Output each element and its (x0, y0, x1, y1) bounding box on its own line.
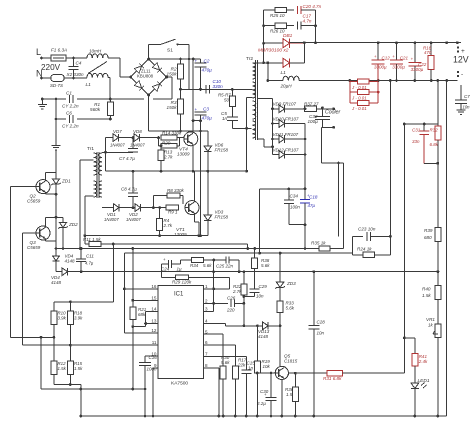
capacitor C1 CY 2.2n (69, 95, 71, 103)
wire - output minus rail (299, 80, 457, 82)
wire - pin16 loop (124, 288, 157, 290)
snubber capacitor C17 4.7n (296, 22, 298, 30)
wire - pin5 to R30 (204, 333, 224, 335)
svg-text:560k: 560k (90, 107, 101, 112)
svg-text:R8 330k: R8 330k (167, 188, 185, 193)
svg-text:1: 1 (205, 284, 208, 289)
wire - Tr2 secondary top to diode (252, 62, 253, 64)
wire - R32 C31 feedback network (404, 123, 437, 125)
svg-text:FR158: FR158 (215, 215, 229, 220)
svg-text:LED1: LED1 (418, 378, 430, 384)
svg-text:6: 6 (205, 340, 208, 345)
wire - second diode riser to +rail (303, 43, 305, 63)
wire - riser from base divider (40, 337, 42, 389)
resistor R20 (158, 138, 160, 146)
capacitor C5 1n (231, 107, 233, 118)
diode VD7 1N4007 (106, 137, 114, 139)
wire - emitter sense to R31 (287, 373, 289, 375)
diode VD1 1N4007 (108, 207, 114, 209)
wire - pin13 pin14 tie (146, 310, 158, 312)
capacitor C3 470u (195, 111, 207, 113)
resistor R10 3.9k (53, 302, 55, 311)
svg-text:11: 11 (152, 340, 157, 345)
zener ZD1 (55, 150, 57, 179)
svg-text:5.6k: 5.6k (261, 263, 270, 268)
svg-text:R24 1k: R24 1k (357, 247, 372, 252)
svg-text:330n: 330n (213, 84, 224, 89)
svg-text:R40: R40 (422, 287, 431, 292)
wire - pin10 to C16 (145, 355, 158, 357)
resistor R29 120k (162, 276, 176, 278)
diode VD3 FR158 (207, 171, 209, 215)
svg-text:SD-7S: SD-7S (50, 83, 63, 88)
svg-text:C24: C24 (161, 267, 170, 272)
svg-text:1n: 1n (248, 366, 254, 371)
capacitor C32 100u (321, 107, 324, 110)
svg-text:100n: 100n (147, 367, 158, 372)
ground (55, 119, 57, 145)
fuse F1 6.3A (51, 55, 66, 61)
wire - Q5 emitter down (281, 380, 283, 417)
diode VD8 1N4007 (119, 137, 135, 139)
svg-text:1n: 1n (222, 116, 228, 121)
wire - rectifier anode bus (272, 99, 274, 155)
capacitor C26 220 (230, 300, 232, 308)
svg-text:5.6k: 5.6k (203, 263, 212, 268)
capacitor C28 10n (308, 324, 319, 326)
resistor R15 1.5k (69, 345, 71, 361)
svg-text:C18: C18 (309, 195, 318, 200)
resistor R5-R7 50 (231, 88, 234, 91)
svg-text:1.5k: 1.5k (58, 366, 67, 371)
svg-text:1µ: 1µ (177, 267, 183, 272)
diode VD2 1N4007 (119, 207, 135, 209)
svg-text:C8 4.7µ: C8 4.7µ (121, 187, 137, 192)
capacitor C34 100n (260, 188, 305, 190)
svg-text:C11: C11 (86, 254, 94, 259)
wire - C28 column (313, 272, 315, 326)
capacitor C2 470u (200, 59, 202, 63)
svg-text:C7 4.7µ: C7 4.7µ (119, 156, 135, 161)
svg-text:10n: 10n (463, 105, 471, 110)
capacitor C10 330n (205, 85, 207, 93)
svg-text:R26 10: R26 10 (270, 29, 285, 34)
svg-text:C20 4.7n: C20 4.7n (303, 4, 322, 9)
resistor R21 68k (132, 249, 134, 308)
svg-text:+: + (195, 107, 198, 112)
rectifier diode MBR30100 second (253, 62, 283, 64)
wire - pin12 stub (124, 332, 157, 334)
diode VD4 4148 (55, 249, 57, 256)
svg-text:470µ: 470µ (202, 68, 213, 73)
svg-text:3300µ: 3300µ (392, 65, 405, 70)
svg-text:MBR30100 x2: MBR30100 x2 (258, 48, 289, 54)
wire - half-bridge midpoint WM1 (106, 170, 247, 172)
wire - bottom ground link (41, 388, 145, 390)
svg-text:ZD3: ZD3 (286, 281, 296, 286)
svg-text:33n: 33n (412, 139, 420, 144)
rectifier diode DB1 MBR30100 (264, 42, 283, 44)
wire - AC input L line (40, 57, 43, 60)
wire - Q3 base to bus (23, 232, 36, 234)
svg-text:2.4k: 2.4k (418, 359, 428, 364)
resistor R39 680 (435, 227, 441, 241)
svg-text:C16: C16 (149, 355, 158, 360)
wire - +12V top rail (290, 42, 462, 44)
wire - Q5 base wire (257, 372, 275, 374)
svg-text:CY 2.2n: CY 2.2n (62, 104, 79, 109)
svg-text:ZD2: ZD2 (68, 222, 78, 227)
zener ZD3 (279, 253, 281, 282)
svg-text:4148: 4148 (65, 259, 76, 264)
capacitor C25 22n (214, 259, 226, 261)
svg-text:C34: C34 (290, 194, 299, 199)
wire - VT1 emitter rail (85, 235, 208, 237)
wire - C24 row corners (161, 264, 163, 277)
capacitor C18 47u (300, 198, 310, 200)
resistor R12 1.5k (53, 337, 55, 361)
svg-text:220: 220 (226, 308, 235, 313)
svg-text:FR158: FR158 (215, 148, 229, 153)
wire - Q2 collector (44, 173, 46, 181)
wire - R12 R15 bottom tie (54, 384, 81, 386)
svg-text:1k: 1k (428, 323, 433, 328)
capacitor C24 1u (167, 260, 169, 268)
wire - C26 drop to VD13 row (243, 303, 245, 325)
diode VD13 4148 (263, 322, 269, 330)
svg-text:C25 22n: C25 22n (216, 264, 234, 269)
IC U1 KA7500 box (158, 286, 204, 379)
wire - pin4 row / VD13 row (204, 323, 226, 325)
wire - choke bottom to N node (108, 77, 110, 79)
svg-text:150k: 150k (167, 105, 178, 110)
svg-text:3: 3 (205, 307, 208, 312)
wire - WA drop to WB (247, 244, 249, 249)
wire - VT4 collector (192, 59, 194, 133)
resistor R2 150k (180, 59, 182, 64)
svg-text:50: 50 (224, 98, 229, 103)
wire - Tr2 secondary tap to rectifiers (258, 98, 273, 100)
svg-text:R34: R34 (190, 263, 199, 268)
wire - snubber right riser (315, 10, 317, 43)
resistor R30 5.6k (220, 366, 226, 379)
svg-text:R31 6.8k: R31 6.8k (323, 376, 342, 381)
wire - pin8 down (204, 367, 219, 369)
wire - DC+ rail y59 (149, 58, 201, 60)
diode VD4b 4148 (56, 271, 62, 273)
wire - pin3 stub (204, 310, 214, 312)
wire - snubber return to primary bottom (232, 127, 251, 129)
svg-text:R11 1.5k: R11 1.5k (83, 237, 101, 242)
wire - bridge negative lead (148, 95, 150, 131)
svg-text:68k: 68k (138, 312, 146, 317)
wire - Tr2 bottom stub (258, 138, 264, 140)
resistor R18 3.9k (69, 302, 71, 311)
resistor R24 1k (352, 254, 363, 256)
svg-text:ZD1: ZD1 (61, 179, 71, 184)
svg-text:C6: C6 (66, 111, 72, 116)
svg-text:KA7500: KA7500 (171, 381, 188, 387)
wire - pin11 long bus (23, 344, 158, 346)
svg-text:R9 1: R9 1 (168, 210, 178, 215)
svg-text:1.5k: 1.5k (422, 293, 431, 298)
wire - bottom rail (81, 415, 447, 417)
capacitor C11 4.7u (80, 270, 83, 273)
svg-text:5.6k: 5.6k (221, 360, 230, 365)
svg-text:4148: 4148 (258, 334, 269, 339)
svg-text:470: 470 (424, 50, 432, 55)
transistor VT1 13009 (185, 201, 199, 215)
resistor R4 2.7k (159, 208, 161, 219)
resistor R34 5.6k (180, 259, 191, 261)
snubber capacitor C20 4.7n (296, 6, 298, 14)
resistor R3 150k (180, 89, 182, 99)
capacitor C12 3300u (377, 43, 379, 61)
capacitor C8 4.7u (132, 171, 134, 193)
svg-text:1.5: 1.5 (286, 392, 293, 397)
wire - feedback wire y271 (81, 271, 439, 273)
svg-text:2.2µ: 2.2µ (256, 401, 266, 406)
wire - x404 feedback column (403, 124, 405, 373)
zener ZD2 (62, 217, 64, 222)
svg-text:Tr1: Tr1 (87, 146, 94, 152)
svg-text:6.8k: 6.8k (430, 142, 439, 147)
resistor R32 6.8k (437, 81, 439, 127)
wire - C31 R32 bottom tie (424, 162, 438, 164)
svg-text:150k: 150k (167, 72, 178, 77)
thermistor SD-7S (51, 75, 64, 82)
wire - N line with Y caps (42, 98, 66, 100)
svg-text:R39: R39 (424, 228, 433, 233)
svg-text:5: 5 (205, 329, 208, 334)
svg-text:C29: C29 (259, 284, 268, 289)
switch S1 (148, 44, 150, 59)
wire - bus x56 down (55, 194, 57, 248)
wire - rectifier cathode bus (304, 124, 306, 200)
wire - snubber left riser (263, 10, 265, 63)
svg-text:220V: 220V (41, 63, 61, 72)
svg-text:C1: C1 (66, 91, 72, 96)
wire - half-bridge midpoint to primary (181, 88, 248, 90)
svg-text:1N4007: 1N4007 (126, 217, 141, 222)
diode VD6 FR158 (207, 131, 209, 146)
capacitor C6 CY 2.2n (69, 115, 71, 123)
capacitor C7 4.7u (132, 138, 134, 149)
wire - VT4 collector tap to C3 (193, 120, 200, 122)
svg-text:CY 2.2n: CY 2.2n (62, 124, 79, 129)
svg-text:L: L (36, 47, 41, 57)
svg-text:VD8: VD8 (133, 129, 142, 134)
wire - AC input N line (40, 77, 43, 80)
svg-text:DB1: DB1 (283, 33, 293, 39)
svg-text:L1: L1 (86, 82, 92, 88)
resistor R1 560k (109, 99, 111, 102)
svg-text:10n: 10n (317, 331, 325, 336)
ground (41, 99, 43, 105)
capacitor C30 2.2u (270, 373, 272, 397)
svg-text:VR1: VR1 (426, 317, 435, 322)
svg-text:100µ: 100µ (308, 119, 319, 124)
svg-text:8: 8 (205, 363, 208, 368)
svg-text:C2: C2 (204, 59, 210, 64)
svg-text:7: 7 (205, 352, 208, 357)
resistor R8 330k (152, 196, 154, 208)
rectifier diode VD10 FR107 (273, 123, 280, 125)
wire - WB bus (56, 248, 344, 250)
svg-text:R29 120k: R29 120k (172, 280, 192, 285)
svg-text:10n: 10n (256, 294, 264, 299)
resistor R36 1.5k (294, 373, 296, 387)
wire - Q3 collector to ZD2 (44, 217, 46, 227)
svg-text:Cooler: Cooler (325, 110, 341, 116)
resistor R37 27 (305, 106, 317, 111)
rectifier diode VD12 FR107 (273, 154, 280, 156)
svg-text:J - 0.01: J - 0.01 (351, 106, 367, 111)
wire - riser from WC to C34 (259, 189, 261, 253)
resistor R19 10k (256, 326, 258, 361)
transistor Q5 C1815 (275, 366, 288, 379)
svg-text:C4: C4 (76, 61, 82, 66)
svg-text:-: - (461, 71, 463, 78)
resistor R38 5.6k (254, 249, 256, 259)
wire - WB riser to C32 net (343, 163, 345, 249)
svg-text:680: 680 (424, 235, 432, 240)
wire - Tr2 primary bottom tap (247, 96, 253, 98)
svg-text:14: 14 (151, 307, 157, 312)
wire - Q2 emitter (44, 192, 46, 194)
svg-text:1N4007: 1N4007 (110, 143, 125, 148)
wire - VT1 emitter (193, 213, 195, 222)
wire - WC to R24 row (351, 253, 353, 255)
svg-text:VD12 FR107: VD12 FR107 (273, 147, 300, 152)
svg-text:4: 4 (205, 319, 208, 324)
wire - Q3 emitter (44, 239, 46, 241)
inductor L1 20uH (268, 80, 283, 82)
wire - divider riser to WA (112, 244, 114, 302)
capacitor C16 100n (144, 356, 146, 362)
resistor R13 2.7k (160, 146, 162, 150)
bridge rectifier ZL11 KBU808 (131, 59, 167, 95)
rectifier diode VD11 FR107 (273, 138, 280, 140)
capacitor C29 10n (254, 269, 256, 290)
svg-text:2.7k: 2.7k (163, 223, 173, 228)
wire - WC bus (124, 252, 352, 254)
wire - C25 drop to fb wire (238, 260, 240, 272)
svg-text:4.7µ: 4.7µ (85, 261, 94, 266)
resistor R40 1.5k (435, 286, 441, 300)
svg-text:2.7k: 2.7k (163, 155, 173, 160)
transistor VT4 13009 (184, 132, 198, 146)
svg-text:13009: 13009 (177, 152, 190, 157)
svg-text:1.5k: 1.5k (74, 366, 83, 371)
svg-text:2.7k: 2.7k (232, 289, 242, 294)
svg-text:X2 330n: X2 330n (66, 72, 85, 77)
svg-text:4148: 4148 (51, 280, 62, 285)
svg-text:C3: C3 (203, 107, 209, 112)
svg-text:VD7: VD7 (113, 129, 122, 134)
svg-text:10mH: 10mH (89, 49, 102, 54)
transistor Q3 C5659 (36, 226, 50, 240)
svg-text:C7: C7 (464, 94, 470, 99)
svg-text:F1 6.3A: F1 6.3A (51, 48, 67, 53)
potentiometer VR1 1k (435, 324, 441, 338)
svg-text:R32: R32 (430, 128, 439, 133)
wire - VT4 emitter to midpoint (192, 144, 194, 171)
capacitor C21 3300u (396, 43, 398, 61)
wire - WA feedback wire (85, 243, 248, 245)
LED LED1 (411, 383, 419, 389)
svg-text:13009: 13009 (174, 232, 187, 237)
wire - VT1 collector to midpoint (193, 171, 195, 202)
resistor R41 2.4k (412, 354, 418, 366)
svg-text:VD10 FR107: VD10 FR107 (273, 116, 300, 121)
resistor R31 6.8k (327, 370, 343, 376)
svg-text:12V: 12V (453, 55, 469, 65)
svg-text:3300µ: 3300µ (411, 67, 424, 72)
capacitor C31 33n (423, 124, 425, 131)
wire - second Y cap line (55, 99, 57, 119)
svg-text:R14 330k: R14 330k (162, 131, 182, 136)
svg-text:5.6k: 5.6k (286, 306, 295, 311)
svg-text:C5659: C5659 (27, 199, 41, 204)
svg-text:C12: C12 (382, 56, 391, 61)
svg-text:C5659: C5659 (27, 245, 41, 250)
svg-text:KBU808: KBU808 (137, 74, 154, 79)
capacitor C22 3300u (414, 43, 416, 63)
wire - C23 riser (338, 163, 340, 236)
svg-text:22k: 22k (237, 363, 246, 368)
snubber resistor R26 10 (264, 25, 275, 27)
svg-text:10k: 10k (263, 364, 271, 369)
resistor R14 330k (161, 135, 177, 140)
rectifier diode VD9 FR107 (273, 108, 280, 110)
svg-text:470µ: 470µ (202, 116, 213, 121)
wire - Q2 base to left bus (10, 186, 36, 188)
wire - Tr2 primary top feed (247, 88, 252, 90)
svg-text:C1815: C1815 (284, 359, 298, 364)
svg-text:1N4007: 1N4007 (104, 217, 119, 222)
wire - pin6 to R17 (204, 344, 236, 346)
svg-text:R35 1k: R35 1k (311, 241, 326, 246)
wire - VD7 branch riser (105, 138, 107, 153)
snubber resistor R25 10 (264, 9, 275, 11)
svg-text:3300µ: 3300µ (374, 65, 387, 70)
wire - x213 column (213, 260, 215, 311)
resistor R33 5.6k (277, 301, 283, 312)
svg-text:R20: R20 (162, 140, 171, 145)
svg-text:VD11 FR107: VD11 FR107 (273, 132, 299, 137)
wire - loop left riser x124 (123, 253, 125, 333)
wire - Tr1 bottom right to VT1 base line (102, 207, 108, 209)
wire - Tr1 top left tap riser (80, 159, 93, 161)
svg-text:C21: C21 (400, 56, 409, 61)
wire - choke top to bridge AC1 (108, 57, 120, 59)
wire - DC minus (149, 130, 208, 132)
shunt resistors J-0.01 (349, 81, 351, 103)
wire - R33 to Q5 collector (279, 326, 281, 367)
wire - C32 return / cooler terminals (322, 126, 334, 128)
svg-text:15: 15 (151, 295, 157, 300)
svg-text:+: + (195, 58, 198, 63)
svg-text:VD9 FR107: VD9 FR107 (273, 102, 297, 107)
svg-text:C23 10n: C23 10n (358, 227, 376, 232)
wire - pin9 down (153, 367, 158, 369)
wire - Tr2 node to L1 filter (267, 63, 269, 81)
svg-text:Tr2: Tr2 (246, 56, 253, 62)
resistor R9 1 (166, 205, 179, 210)
wire - Tr1 bottom left riser (84, 196, 86, 244)
transistor Q2 C5659 (36, 180, 50, 194)
